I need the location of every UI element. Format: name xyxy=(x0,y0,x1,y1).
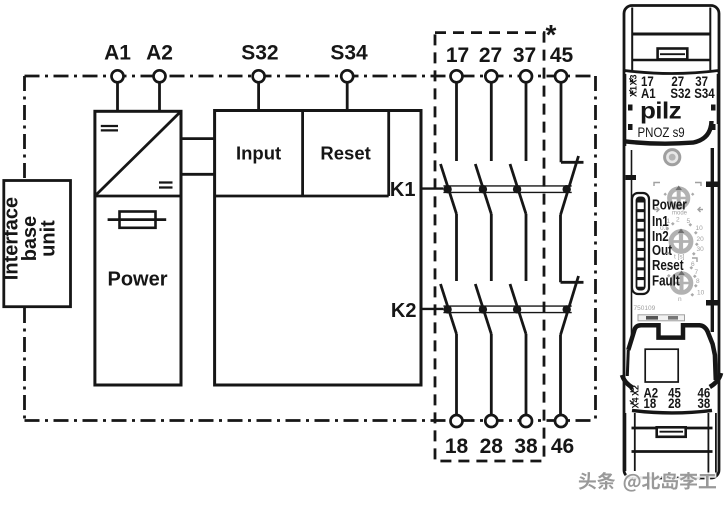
svg-text:Power: Power xyxy=(652,196,687,213)
device top cap lines xyxy=(632,8,710,71)
svg-text:X3: X3 xyxy=(629,74,639,85)
device knob t[s] xyxy=(671,229,692,254)
svg-text:S34: S34 xyxy=(694,86,714,101)
svg-text:K1: K1 xyxy=(390,179,416,201)
terminal 38 xyxy=(514,415,538,458)
junction dots K2 xyxy=(443,305,571,313)
wire: terminal A1 drop xyxy=(116,82,119,111)
dashed group box (safety contacts) xyxy=(435,33,544,461)
wire: terminal A2 drop xyxy=(158,82,161,111)
svg-text:18: 18 xyxy=(644,396,657,411)
K2 NC contact 45-46 seat xyxy=(561,281,584,284)
wire: 18 bottom drop xyxy=(455,334,458,415)
device cert bar xyxy=(638,315,685,321)
wire: 17-18 mid xyxy=(455,214,458,281)
fuse F1 xyxy=(108,212,167,228)
relay K2 lead xyxy=(421,308,443,310)
wire: contact 27 drop xyxy=(490,82,493,161)
K1 NC contact 45-46 xyxy=(561,156,579,215)
device label area bottom curve xyxy=(625,71,719,74)
svg-text:Reset: Reset xyxy=(652,257,684,274)
device status labels xyxy=(652,196,687,289)
interface base unit block xyxy=(1,181,71,307)
device label window xyxy=(645,349,678,382)
device knob bracket marks xyxy=(654,183,703,263)
K1 NC contact 45-46 seat xyxy=(561,161,584,164)
wire: terminal S34 drop xyxy=(346,82,349,110)
reset right divider xyxy=(387,111,390,197)
svg-text:2: 2 xyxy=(676,217,680,224)
terminal 27 xyxy=(479,44,502,82)
svg-text:10: 10 xyxy=(697,290,705,297)
device lower boundary curve xyxy=(632,410,712,413)
DC symbol top-left xyxy=(101,126,118,130)
svg-text:17: 17 xyxy=(446,44,469,67)
terminal 45 xyxy=(550,44,574,82)
svg-text:Power: Power xyxy=(107,269,167,291)
DEVICE: pilz PNOZ s9 relay photo (line art) xyxy=(622,6,721,479)
svg-text:750109: 750109 xyxy=(634,305,656,312)
K2 linkage bar xyxy=(443,306,571,313)
svg-text:In1: In1 xyxy=(652,213,669,230)
terminal 37 xyxy=(513,44,536,82)
device header row arrows xyxy=(629,78,633,403)
device label area boundary thick xyxy=(625,121,712,144)
svg-text:X2: X2 xyxy=(631,385,641,396)
terminal S32 xyxy=(241,42,278,83)
svg-text:46: 46 xyxy=(551,435,574,458)
wire: boundary bottom dash-dot xyxy=(25,419,596,422)
device top tab xyxy=(658,49,688,60)
relay K1 lead xyxy=(421,187,443,189)
terminal A2 xyxy=(146,42,173,83)
svg-text:A1: A1 xyxy=(104,42,131,65)
wire: contact 37 drop xyxy=(525,82,528,161)
K1 contact 17-18 xyxy=(441,164,457,214)
wire: outer dash-dot supply bus / boundary top xyxy=(25,75,596,78)
device side wall marks xyxy=(626,74,718,146)
K1 contact 27-28 xyxy=(475,164,491,214)
svg-text:38: 38 xyxy=(514,435,538,458)
device terminal hood xyxy=(628,325,716,380)
wire: 37-38 mid xyxy=(525,214,528,281)
device bottom tab xyxy=(657,427,686,437)
junction dots K1 xyxy=(443,185,571,193)
device knob mode xyxy=(669,186,689,210)
power converter divider xyxy=(95,195,181,198)
svg-text:PNOZ s9: PNOZ s9 xyxy=(638,124,685,140)
svg-text:38: 38 xyxy=(697,396,710,411)
svg-text:10: 10 xyxy=(696,225,704,232)
wire: 27-28 mid xyxy=(490,214,493,281)
svg-text:S34: S34 xyxy=(330,42,368,65)
wire: terminal S32 drop xyxy=(257,82,260,110)
watermark 头条@北岛李工 xyxy=(579,472,716,492)
wire: power to logic lead lower xyxy=(181,173,215,176)
svg-text:Fault: Fault xyxy=(652,272,680,289)
terminal A1 xyxy=(104,42,131,83)
K1 linkage bar xyxy=(443,186,571,193)
svg-text:n: n xyxy=(678,296,682,303)
terminal 18 xyxy=(445,415,469,458)
K2 contact 17-18 xyxy=(441,284,457,334)
DC symbol bottom-right xyxy=(159,183,173,188)
K2 NC contact 45-46 xyxy=(561,276,579,335)
wire: boundary right dash-dot xyxy=(594,76,597,421)
svg-text:8: 8 xyxy=(696,278,700,285)
device LED strip xyxy=(632,193,649,294)
wire: 45-46 mid xyxy=(559,215,562,282)
K2 contact 37-38 xyxy=(510,284,526,334)
svg-text:Reset: Reset xyxy=(320,143,370,164)
input/reset bottom divider xyxy=(215,195,389,198)
logic block (Input/Reset/K1/K2) xyxy=(215,111,421,386)
device torx screw xyxy=(665,150,680,165)
terminal S34 xyxy=(330,42,368,83)
svg-text:S32: S32 xyxy=(241,42,278,65)
svg-text:28: 28 xyxy=(668,396,681,411)
device clip right xyxy=(710,373,721,387)
device lower terminal text xyxy=(631,385,711,411)
wire: power to logic lead upper xyxy=(181,137,215,140)
device knob scale markings xyxy=(660,211,705,304)
svg-text:A2: A2 xyxy=(146,42,173,65)
svg-text:30: 30 xyxy=(697,246,705,253)
device clip left xyxy=(622,375,633,388)
wire: 46 bottom drop xyxy=(559,335,562,415)
device housing xyxy=(624,6,719,479)
input/reset divider xyxy=(301,111,304,197)
wire: contact 17 drop xyxy=(455,82,458,161)
svg-text:20: 20 xyxy=(697,236,705,243)
svg-text:pilz: pilz xyxy=(640,99,681,124)
svg-text:37: 37 xyxy=(513,44,536,67)
svg-text:X4: X4 xyxy=(631,397,641,408)
power converter diagonal xyxy=(95,111,181,196)
wire: contact 45 drop xyxy=(560,82,563,162)
device knob n xyxy=(672,271,692,295)
wire: boundary left dash-dot xyxy=(23,76,26,421)
K2 contact 27-28 xyxy=(475,284,491,334)
svg-text:Input: Input xyxy=(236,143,281,164)
svg-text:18: 18 xyxy=(445,435,469,458)
terminal 17 xyxy=(446,44,469,82)
svg-text:45: 45 xyxy=(550,44,574,67)
device mid panel frame xyxy=(631,150,633,340)
wire: 38 bottom drop xyxy=(525,334,528,415)
terminal 46 xyxy=(551,415,574,458)
power supply block xyxy=(95,111,181,385)
terminal 28 xyxy=(480,415,504,458)
device knob tick marks xyxy=(664,193,699,297)
svg-text:28: 28 xyxy=(480,435,504,458)
wire: 28 bottom drop xyxy=(490,334,493,415)
K1 contact 37-38 xyxy=(510,164,526,214)
svg-text:27: 27 xyxy=(479,44,502,67)
device bottom section xyxy=(625,413,634,471)
device terminal header text xyxy=(629,74,715,101)
svg-text:K2: K2 xyxy=(391,300,417,322)
